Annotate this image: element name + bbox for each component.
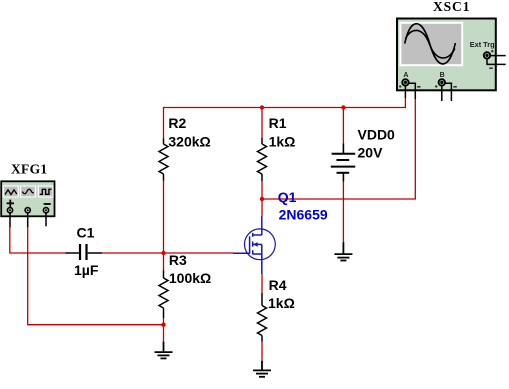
XFG1 button square bbox=[38, 186, 53, 197]
wire gate row bbox=[164, 252, 234, 254]
wire source to R4 bbox=[261, 274, 263, 293]
node R1 top junction dot bbox=[260, 105, 264, 109]
svg-text:1kΩ: 1kΩ bbox=[269, 134, 296, 150]
XFG1 minus mark bbox=[44, 203, 51, 205]
XFG1 pin leads bbox=[10, 213, 46, 228]
wire drain vertical bbox=[261, 199, 263, 216]
XSC1 pin wires B bbox=[441, 86, 443, 101]
resistor R3 bbox=[159, 271, 168, 319]
wire VDD bottom to ground bbox=[342, 182, 344, 243]
XSC1 pin wires Ext Trg bbox=[490, 55, 506, 57]
svg-text:R2: R2 bbox=[168, 115, 186, 131]
XFG1 terminal - bbox=[43, 208, 48, 213]
resistor R2 bbox=[159, 139, 168, 181]
svg-text:320kΩ: 320kΩ bbox=[168, 134, 210, 150]
svg-text:2N6659: 2N6659 bbox=[279, 207, 328, 223]
XFG1 plus mark bbox=[7, 200, 51, 207]
svg-text:R3: R3 bbox=[169, 252, 187, 268]
ground below battery bbox=[334, 242, 352, 260]
XSC1 terminal Ext Trg bbox=[484, 52, 490, 58]
wire R2 bottom to gate node bbox=[163, 181, 165, 254]
battery VDD0 bbox=[331, 143, 355, 181]
XSC1 polarity marks bbox=[399, 50, 494, 88]
wire top horizontal net VDD bbox=[164, 98, 406, 139]
XFG1 button triangle bbox=[21, 186, 36, 197]
XSC1 sine small bbox=[405, 30, 454, 58]
transistor Q1 2N6659 MOSFET bbox=[233, 216, 275, 274]
XFG1 terminal common bbox=[25, 208, 30, 213]
wire XFG plus to C1 bbox=[10, 227, 65, 253]
capacitor C1 bbox=[65, 244, 102, 260]
XFG1 button sine bbox=[3, 186, 18, 197]
ground below R3 node bbox=[155, 342, 173, 359]
svg-text:R1: R1 bbox=[269, 115, 287, 131]
wire VDD top lead bbox=[342, 108, 344, 144]
svg-text:B: B bbox=[440, 72, 445, 79]
node drain junction dot bbox=[260, 197, 264, 201]
wire R1 bottom to drain node bbox=[261, 181, 263, 199]
XSC1 pin wires A bbox=[405, 56, 505, 101]
XSC1 terminal B bbox=[439, 79, 445, 85]
wire drain node to scope A- bbox=[262, 99, 415, 199]
wire R1 top bbox=[261, 108, 263, 138]
resistor R4 bbox=[258, 293, 267, 342]
node gate row junction dot bbox=[161, 251, 165, 255]
svg-text:XSC1: XSC1 bbox=[433, 0, 470, 14]
svg-text:Ext Trg: Ext Trg bbox=[470, 40, 495, 49]
node VDD top junction dot bbox=[341, 105, 345, 109]
svg-text:1µF: 1µF bbox=[74, 262, 99, 278]
svg-text:100kΩ: 100kΩ bbox=[169, 270, 211, 286]
wire C1 to gate node bbox=[102, 252, 163, 254]
svg-text:R4: R4 bbox=[269, 277, 287, 293]
svg-text:1kΩ: 1kΩ bbox=[268, 295, 295, 311]
svg-text:20V: 20V bbox=[358, 144, 384, 160]
wire R4 to ground bbox=[261, 342, 263, 361]
XFG1 function generator box bbox=[1, 181, 54, 227]
Q1 arrow bbox=[253, 242, 257, 247]
svg-text:C1: C1 bbox=[77, 225, 95, 241]
wire bottom row to ground bbox=[28, 227, 164, 341]
ground below R4 bbox=[253, 361, 271, 377]
resistor R1 bbox=[258, 138, 267, 181]
XSC1 terminal A bbox=[402, 79, 408, 85]
svg-text:A: A bbox=[403, 72, 408, 79]
XFG1 terminal + bbox=[7, 208, 12, 213]
wire R3 top bbox=[163, 253, 165, 271]
XSC1 oscilloscope box bbox=[397, 19, 506, 102]
node bottom row junction dot bbox=[161, 323, 165, 327]
wire R3 bottom bbox=[163, 318, 165, 325]
svg-text:XFG1: XFG1 bbox=[11, 162, 47, 177]
svg-text:VDD0: VDD0 bbox=[358, 126, 396, 142]
XSC1 screen bbox=[400, 23, 462, 65]
svg-text:Q1: Q1 bbox=[278, 189, 297, 205]
XSC1 sine big bbox=[405, 24, 456, 64]
